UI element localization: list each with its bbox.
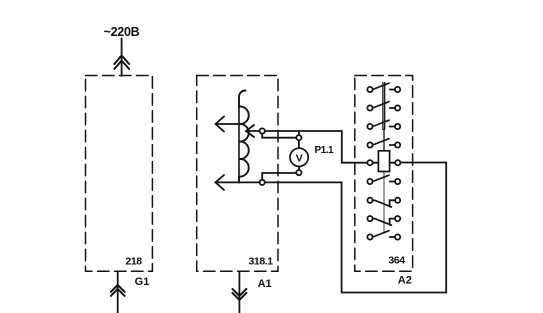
contact K1.3 (NO)	[367, 120, 400, 129]
contact K1.5 (NO)	[367, 175, 400, 184]
connector chevron X3 (A1 plug, pointing down)	[232, 289, 246, 300]
contact K1.6 (NC)	[367, 198, 400, 207]
contact K1.2 (NO)	[367, 102, 400, 111]
svg-text:P1.1: P1.1	[315, 145, 335, 156]
block A1 dashed box 318.1	[197, 76, 278, 272]
contact K1.7 (NC)	[367, 216, 400, 225]
voltmeter lower lead	[298, 166, 300, 170]
wire supply to G1 box	[121, 39, 123, 77]
svg-text:V: V	[296, 152, 303, 164]
contact K1.4 (NO)	[367, 139, 400, 148]
contact K1.1 (NO)	[367, 83, 400, 92]
svg-text:218: 218	[125, 256, 142, 268]
autotransformer T1 winding chord	[238, 107, 240, 183]
svg-text:G1: G1	[135, 276, 150, 288]
svg-text:318.1: 318.1	[248, 256, 273, 268]
svg-text:~220B: ~220B	[104, 25, 140, 39]
connector chevron X2 (G1 output plug)	[111, 285, 125, 296]
svg-text:A1: A1	[258, 278, 272, 290]
stem upper wire to voltmeter terminal	[298, 131, 300, 135]
voltmeter upper terminal	[296, 135, 301, 140]
autotransformer T1 winding	[239, 90, 249, 182]
relay K1 linkage (row4 to coil)	[383, 130, 385, 151]
bottom terminal circle	[260, 180, 265, 185]
relay K1 linkage (coil to lower contacts)	[383, 172, 385, 233]
relay coil K1	[367, 160, 372, 165]
relay K1 linkage bar (upper, double)	[382, 83, 384, 130]
svg-text:A2: A2	[398, 275, 412, 287]
wire bottom tap loop to relay coil right side	[265, 163, 446, 293]
stub wire bottom tap circle to voltmeter lower terminal	[262, 173, 296, 180]
stub wire tap circle to voltmeter upper terminal	[262, 134, 296, 138]
block A2 dashed box 364	[355, 76, 413, 272]
svg-text:364: 364	[388, 255, 405, 267]
wire tap to relay coil (upper)	[265, 131, 368, 163]
voltmeter P1.1	[290, 148, 308, 166]
arrow terminal top-left of T1	[216, 123, 241, 125]
movable tap arrow of T1	[246, 130, 260, 132]
block G1 dashed box 218	[86, 76, 153, 272]
wire G1 bottom output	[117, 271, 119, 313]
wire A1 bottom output	[238, 271, 240, 313]
connector chevron X1 (supply plug)	[114, 55, 129, 69]
contact K1.8 (NO)	[367, 231, 400, 240]
voltmeter lower terminal	[296, 170, 301, 175]
tap terminal circle	[260, 128, 265, 133]
bottom line of T1 with arrow terminal	[216, 181, 260, 183]
